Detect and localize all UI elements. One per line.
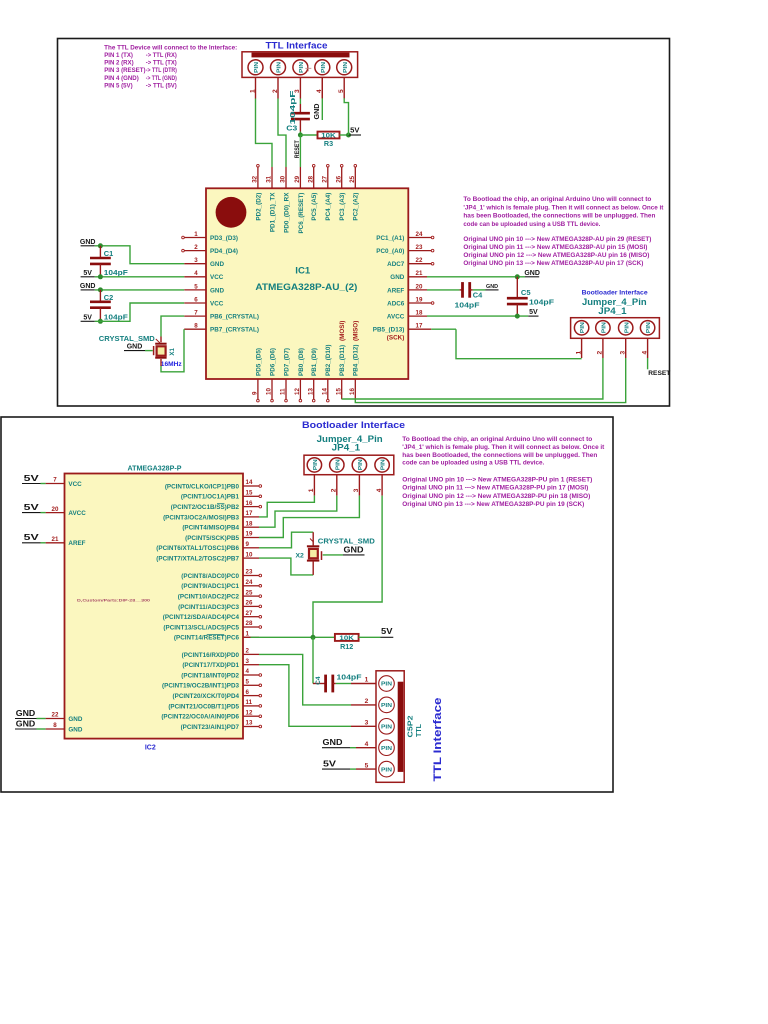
svg-text:1: 1 <box>194 231 198 238</box>
svg-text:PIN: PIN <box>343 62 349 73</box>
junction C1 top <box>98 243 103 248</box>
IC1 right pin 19 ADC6 <box>387 296 434 307</box>
IC1 right pin 24 PC1_(A1) <box>376 231 434 242</box>
wire GND to IC1 pin3 <box>95 246 184 264</box>
IC1 left pin 1 PD3_(D3) <box>182 231 238 242</box>
svg-text:PC3_(A3): PC3_(A3) <box>339 193 346 221</box>
svg-text:(PCINT11/ADC3)PC3: (PCINT11/ADC3)PC3 <box>178 604 239 611</box>
IC1 bottom pin 10 PD6_(D6) <box>266 348 277 402</box>
connector JP4_1 pin 3 circle (bottom) <box>352 458 366 472</box>
wire IC2 pin1 PC6 to R12 <box>243 636 335 638</box>
svg-text:PD4_(D4): PD4_(D4) <box>210 248 238 255</box>
JP4_1 pin 3 stub (bottom) <box>353 475 360 496</box>
svg-text:PC0_(A0): PC0_(A0) <box>376 248 404 255</box>
svg-text:26: 26 <box>246 600 253 607</box>
svg-text:21: 21 <box>416 270 423 277</box>
svg-text:PB0_(D8): PB0_(D8) <box>298 348 305 376</box>
svg-text:PIN: PIN <box>381 682 392 688</box>
connector TTL pin 5 circle <box>337 60 352 75</box>
svg-text:code can be uploaded using a U: code can be uploaded using a USB TTL dev… <box>463 221 600 228</box>
svg-text:4: 4 <box>641 351 648 355</box>
svg-text:(PCINT18/INT0)PD2: (PCINT18/INT0)PD2 <box>181 672 239 679</box>
svg-text:5V: 5V <box>323 759 337 768</box>
wire GND to IC1 pin5 <box>95 289 184 291</box>
JP4_1 pin 1 stub (top) <box>575 338 582 358</box>
svg-text:7: 7 <box>53 477 57 484</box>
svg-text:ATMEGA328P-P: ATMEGA328P-P <box>128 465 182 472</box>
svg-text:GND: GND <box>312 104 321 120</box>
svg-text:2: 2 <box>597 351 604 355</box>
svg-text:(MISO): (MISO) <box>353 321 360 341</box>
svg-text:32: 32 <box>252 175 259 182</box>
svg-text:1: 1 <box>365 677 369 684</box>
IC1 bottom pin 11 PD7_(D7) <box>280 348 291 402</box>
svg-text:X1: X1 <box>169 347 176 355</box>
svg-text:R3: R3 <box>324 139 333 148</box>
C5P2 pin 4 stub <box>356 741 376 748</box>
junction C5 top <box>515 274 520 279</box>
svg-text:5V: 5V <box>83 314 92 321</box>
svg-text:28: 28 <box>246 620 253 627</box>
svg-text:PIN: PIN <box>321 62 327 73</box>
svg-text:PC1_(A1): PC1_(A1) <box>376 235 404 242</box>
IC1 top pin 25 PC2_(A2) <box>349 164 360 220</box>
IC1 top pin 30 PD0_(D0)_RX <box>280 167 291 233</box>
connector JP4_1 pin 4 circle (top) <box>640 321 654 335</box>
IC1 right pin 23 PC0_(A0) <box>376 244 434 255</box>
svg-text:24: 24 <box>246 579 253 586</box>
svg-text:5: 5 <box>194 283 198 290</box>
C5P2 pin 2 stub <box>351 698 376 705</box>
svg-text:GND: GND <box>68 726 82 733</box>
JP4_1 pin 4 stub (top) <box>641 338 648 358</box>
svg-text:C2: C2 <box>104 293 113 302</box>
svg-text:PB3_(D11): PB3_(D11) <box>339 345 346 376</box>
svg-text:PIN: PIN <box>381 703 392 709</box>
svg-text:26: 26 <box>335 175 342 182</box>
IC1 right pin 20 AREF <box>387 283 427 294</box>
IC2 right pin 12 (PCINT22/OC0A/AIN0)PD6 <box>161 709 261 720</box>
svg-text:AREF: AREF <box>387 287 404 294</box>
svg-text:ADC7: ADC7 <box>387 261 405 268</box>
wire C4 to C5P2 pin1 <box>336 683 351 685</box>
svg-text:To Bootload the chip, an origi: To Bootload the chip, an original Arduin… <box>402 436 592 443</box>
connector JP4_1 pin 3 circle (top) <box>619 321 633 335</box>
wire GND to X1 left pad <box>145 350 153 352</box>
IC1 bottom pin 13 PB1_(D9) <box>307 348 318 402</box>
svg-text:-> TTL (RX): -> TTL (RX) <box>146 52 177 59</box>
svg-text:25: 25 <box>349 175 356 182</box>
svg-text:Original UNO pin 11 ---> New A: Original UNO pin 11 ---> New ATMEGA328P-… <box>402 485 588 492</box>
svg-text:20: 20 <box>416 283 423 290</box>
IC1 top pin 27 PC4_(A4) <box>321 164 332 220</box>
junction 5V at R3 <box>346 133 351 138</box>
svg-text:PIN: PIN <box>313 459 319 470</box>
IC2 right pin 25 (PCINT10/ADC2)PC2 <box>178 589 262 600</box>
C5P2 pin 3 stub <box>351 720 376 727</box>
svg-text:AVCC: AVCC <box>68 510 86 517</box>
svg-text:17: 17 <box>416 323 423 330</box>
svg-text:GND: GND <box>210 261 224 268</box>
power label GND at IC2 row 718.5 <box>15 709 46 719</box>
svg-text:-> TTL (5V): -> TTL (5V) <box>146 82 177 89</box>
svg-text:PD1_(D1)_TX: PD1_(D1)_TX <box>269 192 276 232</box>
svg-text:1: 1 <box>249 89 256 93</box>
crystal X2 <box>296 546 322 560</box>
wire RESET junction down to C4 <box>312 637 314 683</box>
connector JP4_1 pin 2 circle (bottom) <box>330 458 344 472</box>
svg-text:3: 3 <box>353 488 360 492</box>
op-amp: IC1 ATMEGA328P-AU body <box>206 188 408 379</box>
resistor R3 10K <box>318 132 340 148</box>
svg-text:PIN 5 (5V): PIN 5 (5V) <box>104 82 132 89</box>
capacitor C2 104pF <box>90 290 128 322</box>
svg-text:27: 27 <box>321 175 328 182</box>
svg-text:PD7_(D7): PD7_(D7) <box>283 348 290 376</box>
IC2 left pin 21 AREF <box>46 536 86 547</box>
svg-text:22: 22 <box>52 712 59 719</box>
svg-text:(PCINT19/OC2B/INT1)PD3: (PCINT19/OC2B/INT1)PD3 <box>162 683 239 690</box>
overline RESET on PC6 label <box>207 634 225 636</box>
wire IC2 pin9 XTAL1 to X2 top <box>259 532 313 548</box>
svg-text:10: 10 <box>266 388 273 395</box>
svg-text:PB5_(D13): PB5_(D13) <box>373 327 405 334</box>
svg-text:PD2_(D2): PD2_(D2) <box>255 193 262 221</box>
svg-text:10: 10 <box>246 551 253 558</box>
svg-text:PC5_(A5): PC5_(A5) <box>311 193 318 221</box>
power label 5V at R12 <box>381 627 394 637</box>
svg-text:'JP4_1' which is female plug.: 'JP4_1' which is female plug. Then it wi… <box>463 204 664 211</box>
svg-text:The TTL Device will connect to: The TTL Device will connect to the Inter… <box>104 44 237 51</box>
junction RESET net (bottom) <box>311 635 316 640</box>
svg-text:X2: X2 <box>296 553 305 560</box>
svg-text:PD0_(D0)_RX: PD0_(D0)_RX <box>283 192 290 233</box>
wire JP4_1 pin1 to IC2 pin17 MOSI <box>259 496 314 517</box>
C5P2 pin 5 stub <box>356 762 376 769</box>
svg-text:VCC: VCC <box>68 481 82 488</box>
svg-text:GND: GND <box>16 709 36 718</box>
svg-text:(SCK): (SCK) <box>387 335 405 342</box>
IC1 top pin 32 PD2_(D2) <box>252 164 263 220</box>
svg-text:13: 13 <box>307 388 314 395</box>
svg-text:GND: GND <box>344 546 364 555</box>
wire JP4_1 pin4 to RESET junction <box>313 496 382 638</box>
power label GND at IC2 row 729.0 <box>15 719 46 729</box>
svg-text:Original UNO pin 13 ---> New A: Original UNO pin 13 ---> New ATMEGA328P-… <box>463 260 643 267</box>
IC2 right pin 13 (PCINT23/AIN1)PD7 <box>181 720 262 731</box>
svg-text:IC2: IC2 <box>145 745 156 752</box>
svg-text:GND: GND <box>390 274 404 281</box>
wire C4 to GND label <box>473 289 486 291</box>
svg-text:(PCINT17/TXD)PD1: (PCINT17/TXD)PD1 <box>182 662 239 669</box>
svg-text:R12: R12 <box>340 642 353 651</box>
note: bootloader explanation text (bottom) <box>402 436 605 508</box>
svg-text:JP4_1: JP4_1 <box>332 443 361 453</box>
IC2 left pin 7 VCC <box>46 477 83 488</box>
svg-text:16: 16 <box>246 500 253 507</box>
svg-text:11: 11 <box>280 388 287 395</box>
JP4_1 pin 4 stub (bottom) <box>376 475 383 496</box>
IC1 bottom pin 9 PD5_(D5) <box>252 348 263 402</box>
svg-text:3: 3 <box>620 351 627 355</box>
svg-text:28: 28 <box>307 175 314 182</box>
power label 5V at IC2 row 483.5 <box>22 474 46 484</box>
connector JP4_1 pin 1 circle (top) <box>574 321 588 335</box>
wire TTL pin3 toward C3 <box>299 99 301 105</box>
svg-text:18: 18 <box>246 520 253 527</box>
svg-text:5: 5 <box>338 89 345 93</box>
svg-text:has been Bootloaded, the conne: has been Bootloaded, the connections wil… <box>402 452 597 459</box>
svg-text:PIN: PIN <box>335 459 341 470</box>
power label 5V at C5P2 pin5 <box>322 759 356 769</box>
connector JP4_1 pin 1 circle (bottom) <box>307 458 321 472</box>
wire IC1 pin20 AREF to C4 <box>427 289 460 291</box>
svg-text:PIN: PIN <box>277 62 283 73</box>
svg-text:PC2_(A2): PC2_(A2) <box>353 193 360 221</box>
connector C5P2 pin 3 circle <box>379 719 395 735</box>
label CRYSTAL_SMD (bottom) <box>310 537 375 546</box>
connector TTL pin 1 circle <box>248 60 263 75</box>
svg-text:Original UNO pin 10 ---> New A: Original UNO pin 10 ---> New ATMEGA328P-… <box>463 236 651 243</box>
svg-text:PIN 1 (TX): PIN 1 (TX) <box>104 52 133 59</box>
TTL pin 4 stub <box>316 77 323 98</box>
wire IC1 pin8 to X1 bottom <box>161 329 184 372</box>
svg-text:18: 18 <box>416 310 423 317</box>
wire IC1 pin18 AVCC 5V net <box>427 315 528 317</box>
power label 5V at IC2 row 512.6 <box>22 503 46 513</box>
svg-text:C4: C4 <box>473 290 483 299</box>
wire JP4_1 pin3 to IC1 pin16 MISO <box>355 358 625 403</box>
wire IC1 pin17 SCK to bootloader pin1 <box>431 329 581 359</box>
connector C5P2 pin 5 circle <box>379 761 395 777</box>
wire JP4_1 pin2 to IC2 pin18 MISO <box>259 496 337 528</box>
svg-text:13: 13 <box>246 720 253 727</box>
IC2 right pin 3 (PCINT17/TXD)PD1 <box>182 658 259 669</box>
transistor: IC2 ATMEGA328P-P body <box>65 474 244 739</box>
svg-text:C4: C4 <box>315 676 322 685</box>
crystal X1 16MHz <box>154 344 183 369</box>
svg-text:6: 6 <box>194 296 198 303</box>
svg-text:GND: GND <box>68 716 82 723</box>
svg-text:PB7_(CRYSTAL): PB7_(CRYSTAL) <box>210 327 259 334</box>
svg-text:(PCINT8/ADC0)PC0: (PCINT8/ADC0)PC0 <box>181 573 239 580</box>
IC1 top pin 28 PC5_(A5) <box>307 164 318 220</box>
svg-text:Original UNO pin 12 ---> New A: Original UNO pin 12 ---> New ATMEGA328P-… <box>463 252 649 259</box>
capacitor C4 104pF (top) <box>455 282 484 309</box>
svg-text:4: 4 <box>365 741 369 748</box>
IC2 right pin 6 (PCINT20/XCK/T0)PD4 <box>173 689 262 700</box>
svg-text:19: 19 <box>416 296 423 303</box>
svg-text:code can be uploaded using a U: code can be uploaded using a USB TTL dev… <box>402 460 544 467</box>
svg-text:To Bootload the chip, an origi: To Bootload the chip, an original Arduin… <box>463 196 651 203</box>
svg-text:-> TTL (GND): -> TTL (GND) <box>146 75 177 82</box>
svg-text:Bootloader Interface: Bootloader Interface <box>582 289 648 296</box>
svg-text:(PCINT20/XCK/T0)PD4: (PCINT20/XCK/T0)PD4 <box>173 693 240 700</box>
svg-text:PIN: PIN <box>580 322 586 333</box>
JP4_1 pin 1 stub (bottom) <box>308 475 315 496</box>
svg-text:(PCINT12/SDA/ADC4)PC4: (PCINT12/SDA/ADC4)PC4 <box>163 614 240 621</box>
svg-text:IC1: IC1 <box>295 266 311 277</box>
svg-text:Original UNO pin 13 ---> New A: Original UNO pin 13 ---> New ATMEGA328P-… <box>402 501 584 508</box>
IC2 right pin 10 (PCINT7/XTAL2/TOSC2)PB7 <box>156 551 259 562</box>
capacitor C5 104pF <box>507 277 555 316</box>
IC1 bottom pin 12 PB0_(D8) <box>294 348 305 402</box>
svg-text:TTL: TTL <box>416 723 423 737</box>
wire 5V to IC1 pin4 VCC <box>95 276 184 278</box>
svg-text:Original UNO pin 10 ---> New A: Original UNO pin 10 ---> New ATMEGA328P-… <box>402 476 592 483</box>
svg-text:'JP4_1' which is female plug.: 'JP4_1' which is female plug. Then it wi… <box>402 444 605 451</box>
svg-text:5V: 5V <box>83 270 92 277</box>
svg-text:5V: 5V <box>24 503 40 512</box>
svg-text:27: 27 <box>246 610 253 617</box>
junction C2 bottom <box>98 319 103 324</box>
svg-text:GND: GND <box>323 738 343 747</box>
svg-text:GND: GND <box>16 719 36 728</box>
svg-text:C5: C5 <box>521 288 531 297</box>
TTL pin 3 stub <box>294 77 301 98</box>
svg-text:Original UNO pin 12 ---> New A: Original UNO pin 12 ---> New ATMEGA328P-… <box>402 493 590 500</box>
svg-text:Bootloader Interface: Bootloader Interface <box>302 419 405 430</box>
connector JP4_1 pin 4 circle (bottom) <box>375 458 389 472</box>
svg-text:(PCINT16/RXD)PD0: (PCINT16/RXD)PD0 <box>182 652 240 659</box>
svg-text:C5P2: C5P2 <box>406 716 415 738</box>
svg-text:104pF: 104pF <box>455 301 481 310</box>
svg-text:VCC: VCC <box>210 274 224 281</box>
svg-text:(PCINT13/SCL/ADC5)PC5: (PCINT13/SCL/ADC5)PC5 <box>163 624 239 631</box>
svg-text:TTL Interface: TTL Interface <box>432 698 444 782</box>
wire 5V to IC1 pin6 VCC <box>95 303 184 321</box>
svg-text:PIN: PIN <box>602 322 608 333</box>
svg-text:17: 17 <box>246 510 253 517</box>
note: TTL device connection text <box>104 44 237 89</box>
IC2 left pin 8 GND <box>46 722 83 733</box>
svg-text:(PCINT0/CLKO/ICP1)PB0: (PCINT0/CLKO/ICP1)PB0 <box>165 483 240 490</box>
IC2 right pin 27 (PCINT12/SDA/ADC4)PC4 <box>163 610 262 621</box>
TTL pin 1 stub <box>249 77 256 98</box>
svg-text:GND: GND <box>486 284 498 290</box>
wire X2 to GND <box>323 554 343 556</box>
svg-text:C3: C3 <box>286 123 297 132</box>
IC2 right pin 4 (PCINT18/INT0)PD2 <box>181 668 261 679</box>
IC2 right pin 15 (PCINT1/OC1A)PB1 <box>181 490 262 501</box>
IC1 left pin 2 PD4_(D4) <box>182 244 238 255</box>
TTL pin 5 stub <box>338 77 345 98</box>
svg-text:(PCINT1/OC1A)PB1: (PCINT1/OC1A)PB1 <box>181 494 240 501</box>
JP4_1 pin 3 stub (top) <box>620 338 627 358</box>
svg-text:3: 3 <box>365 720 369 727</box>
wire IC1 pin21 GND net <box>427 276 525 278</box>
svg-text:23: 23 <box>416 244 423 251</box>
svg-text:GND: GND <box>210 287 224 294</box>
power label 5V at IC2 row 542.8 <box>22 533 46 543</box>
IC2 right pin 23 (PCINT8/ADC0)PC0 <box>181 569 261 580</box>
svg-text:2: 2 <box>272 89 279 93</box>
svg-text:(PCINT9/ADC1)PC1: (PCINT9/ADC1)PC1 <box>181 583 239 590</box>
svg-text:PB6_(CRYSTAL): PB6_(CRYSTAL) <box>210 314 259 321</box>
svg-text:14: 14 <box>321 388 328 395</box>
svg-text:1: 1 <box>246 631 250 638</box>
label CRYSTAL_SMD <box>99 334 160 343</box>
svg-text:2: 2 <box>194 244 198 251</box>
svg-text:5V: 5V <box>381 627 393 636</box>
IC2 right pin 5 (PCINT19/OC2B/INT1)PD3 <box>162 679 262 690</box>
wire R3 to 5V junction <box>340 134 349 136</box>
bottom schematic frame <box>1 417 613 792</box>
svg-text:16: 16 <box>349 388 356 395</box>
svg-text:D,Custom/Parts:DIP-28__300: D,Custom/Parts:DIP-28__300 <box>77 598 151 603</box>
junction C5 bottom <box>515 314 520 319</box>
capacitor C1 104pF <box>90 246 128 277</box>
svg-text:23: 23 <box>246 569 253 576</box>
svg-text:10K: 10K <box>339 635 354 642</box>
IC1 top pin 31 PD1_(D1)_TX <box>266 167 277 232</box>
connector C5P2 pin 4 circle <box>379 740 395 756</box>
svg-text:1: 1 <box>308 488 315 492</box>
connector TTL Interface body <box>242 52 358 78</box>
connector JP4_1 body (bottom) <box>304 455 394 475</box>
IC1 left pin 7 PB6_(CRYSTAL) <box>184 310 259 321</box>
IC1 top pin 29 PC6_(RESET) <box>294 167 305 234</box>
svg-text:2: 2 <box>365 698 369 705</box>
capacitor C4 104pF (bottom) <box>313 674 362 692</box>
connector C5P2 pin 2 circle <box>379 697 395 713</box>
svg-text:9: 9 <box>246 541 250 548</box>
JP4_1 pin 2 stub (bottom) <box>331 475 338 496</box>
svg-text:(PCINT22/OC0A/AIN0)PD6: (PCINT22/OC0A/AIN0)PD6 <box>161 714 239 721</box>
svg-text:ADC6: ADC6 <box>387 300 405 307</box>
svg-text:19: 19 <box>246 531 253 538</box>
junction C1 bottom <box>98 274 103 279</box>
IC2 left pin 20 AVCC <box>46 506 87 517</box>
svg-text:PIN: PIN <box>254 62 260 73</box>
wire IC2 pin2 RXD to C5P2 pin2 <box>259 654 351 705</box>
svg-text:GND: GND <box>80 283 96 290</box>
resistor R12 10K <box>335 634 359 651</box>
svg-text:5V: 5V <box>24 533 40 542</box>
junction C2 top <box>98 287 103 292</box>
IC2 right pin 11 (PCINT21/OC0B/T1)PD5 <box>168 699 261 710</box>
svg-text:29: 29 <box>294 175 301 182</box>
IC2 right pin 17 (PCINT3/OC2A/MOSI)PB3 <box>163 510 259 521</box>
svg-text:has been Bootloaded, the conne: has been Bootloaded, the connections wil… <box>463 213 655 220</box>
svg-text:1: 1 <box>575 351 582 355</box>
IC1 bottom pin 14 PB2_(D10) <box>321 345 332 402</box>
svg-text:4: 4 <box>376 488 383 492</box>
svg-text:PB1_(D9): PB1_(D9) <box>311 348 318 376</box>
svg-text:(PCINT2/OC1B/SS)PB2: (PCINT2/OC1B/SS)PB2 <box>171 504 240 511</box>
svg-text:5V: 5V <box>529 309 538 316</box>
svg-text:20: 20 <box>52 506 59 513</box>
IC1 right pin 21 GND <box>390 270 427 281</box>
wire junction to R3 <box>300 134 317 136</box>
svg-text:104pF: 104pF <box>337 674 363 681</box>
svg-text:PIN: PIN <box>381 767 392 773</box>
IC2 right pin 14 (PCINT0/CLKO/ICP1)PB0 <box>165 479 262 490</box>
svg-text:22: 22 <box>416 257 423 264</box>
IC1 right pin 22 ADC7 <box>387 257 434 268</box>
svg-text:3: 3 <box>246 658 250 665</box>
svg-text:6: 6 <box>246 689 250 696</box>
svg-text:(PCINT4/MISO)PB4: (PCINT4/MISO)PB4 <box>182 525 239 532</box>
svg-text:PIN: PIN <box>358 459 364 470</box>
svg-text:24: 24 <box>416 231 423 238</box>
svg-text:-> TTL (TX): -> TTL (TX) <box>146 60 177 67</box>
IC1 bottom pin 16 PB4_(D12) <box>349 345 360 400</box>
wire junction down to IC1 pin29 <box>299 135 301 167</box>
svg-text:PD5_(D5): PD5_(D5) <box>255 348 262 376</box>
svg-text:31: 31 <box>266 175 273 182</box>
wire TTL pin1 to IC1 pin31 (TX) <box>256 99 273 168</box>
